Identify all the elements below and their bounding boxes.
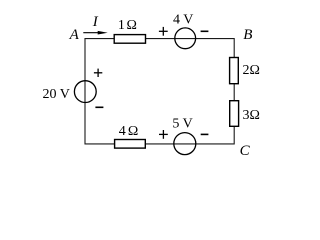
svg-text:Ω: Ω xyxy=(128,124,138,139)
svg-text:B: B xyxy=(243,27,252,43)
svg-text:4 V: 4 V xyxy=(173,12,193,27)
svg-text:C: C xyxy=(240,143,251,159)
svg-text:Ω: Ω xyxy=(127,18,137,33)
svg-text:3Ω: 3Ω xyxy=(243,108,260,123)
svg-text:5 V: 5 V xyxy=(172,117,192,132)
svg-text:4: 4 xyxy=(119,124,126,139)
svg-text:A: A xyxy=(69,27,80,43)
svg-text:I: I xyxy=(92,14,99,30)
svg-text:1: 1 xyxy=(118,18,125,33)
svg-text:20 V: 20 V xyxy=(43,87,70,102)
svg-text:2Ω: 2Ω xyxy=(243,63,260,78)
